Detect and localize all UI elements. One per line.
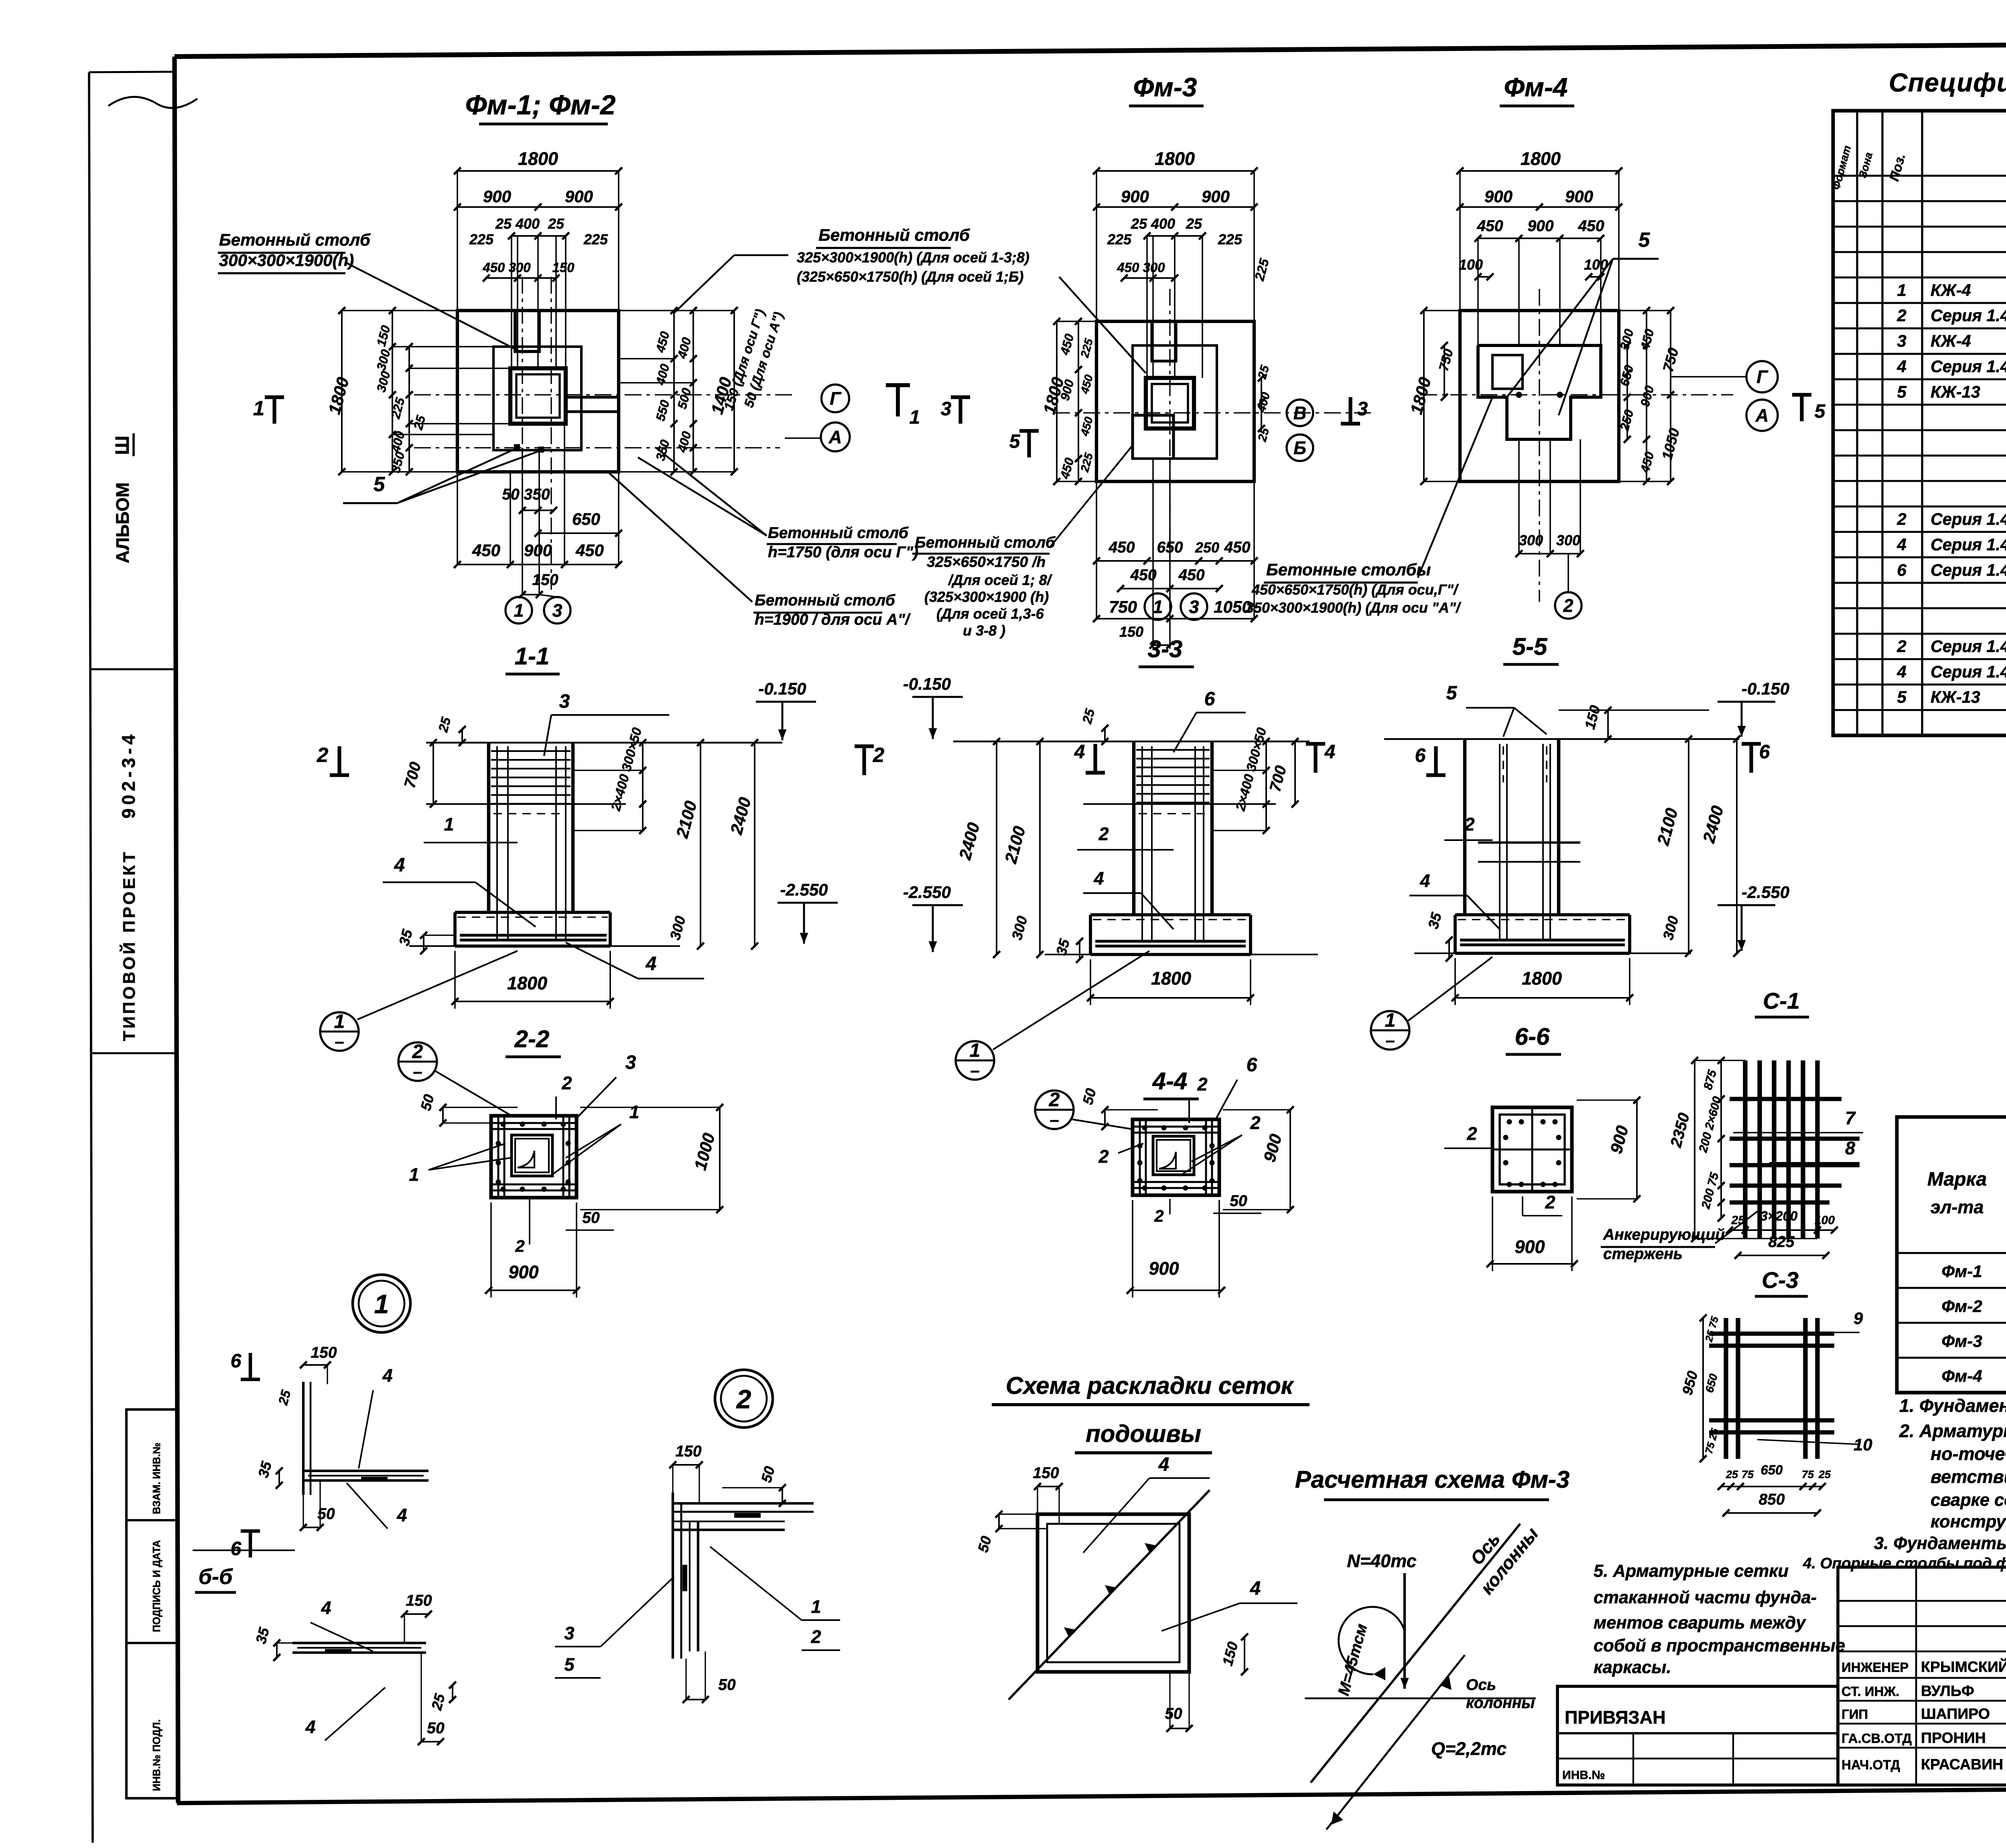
svg-text:4: 4	[646, 953, 657, 975]
svg-text:Бетонный столб: Бетонный столб	[755, 592, 895, 609]
svg-text:3. Фундаменты замаркированы: 3. Фундаменты замаркированы на листе КЖ-…	[1874, 1534, 2006, 1553]
svg-text:сварке соединений арматуры: сварке соединений арматуры и закладных д…	[1931, 1491, 2006, 1510]
svg-text:Бетонный столб: Бетонный столб	[818, 225, 970, 244]
svg-text:150: 150	[406, 1592, 432, 1609]
svg-text:5: 5	[1009, 431, 1021, 452]
svg-text:2: 2	[515, 1237, 524, 1255]
svg-text:900: 900	[1515, 1237, 1545, 1257]
svg-text:1800: 1800	[1151, 968, 1191, 989]
svg-text:4: 4	[394, 855, 405, 876]
svg-text:4: 4	[396, 1505, 407, 1525]
svg-text:3: 3	[559, 691, 570, 712]
svg-text:Схема раскладки сеток: Схема раскладки сеток	[1006, 1372, 1294, 1399]
svg-text:1800: 1800	[1155, 148, 1195, 169]
svg-text:450 300: 450 300	[1117, 260, 1165, 275]
svg-text:4: 4	[1250, 1578, 1261, 1599]
svg-text:5: 5	[1815, 401, 1826, 422]
svg-text:900: 900	[483, 187, 511, 206]
svg-text:Ш: Ш	[112, 436, 133, 455]
svg-text:ГИП: ГИП	[1842, 1707, 1868, 1722]
svg-text:Фм-4: Фм-4	[1504, 72, 1567, 102]
svg-text:650: 650	[572, 510, 600, 528]
svg-text:150: 150	[1119, 623, 1143, 640]
svg-text:2: 2	[1545, 1192, 1555, 1212]
svg-text:3: 3	[564, 1623, 574, 1643]
svg-text:НАЧ.ОТД: НАЧ.ОТД	[1842, 1757, 1900, 1772]
svg-text:2-2: 2-2	[514, 1026, 550, 1052]
svg-text:150: 150	[311, 1344, 337, 1361]
svg-text:1. Фундаменты выполнять: 1. Фундаменты выполнять из бетона М-200.	[1899, 1395, 2006, 1416]
svg-text:450: 450	[1108, 539, 1135, 556]
svg-text:450: 450	[1476, 217, 1503, 235]
svg-text:КЖ-4: КЖ-4	[1931, 281, 1971, 299]
svg-text:2: 2	[810, 1627, 821, 1647]
svg-text:2: 2	[412, 1041, 423, 1062]
svg-text:3-3: 3-3	[1148, 636, 1183, 662]
svg-text:собой в пространственные: собой в пространственные	[1594, 1636, 1845, 1655]
svg-text:ТИПОВОЙ ПРОЕКТ: ТИПОВОЙ ПРОЕКТ	[119, 850, 138, 1041]
svg-text:25 400: 25 400	[495, 215, 540, 232]
svg-text:6: 6	[1415, 745, 1426, 766]
svg-text:150: 150	[532, 571, 558, 589]
svg-text:2. Арматурные сетки изгот: 2. Арматурные сетки изготовлять при помо…	[1899, 1421, 2006, 1441]
svg-text:Спецификация элементов монолит: Спецификация элементов монолитной констр…	[1889, 68, 2006, 97]
svg-text:25: 25	[1731, 1214, 1745, 1227]
svg-text:стаканной части фунда-: стаканной части фунда-	[1594, 1588, 1817, 1607]
svg-text:1: 1	[444, 814, 454, 835]
svg-text:900: 900	[1527, 217, 1553, 235]
svg-text:КЖ-13: КЖ-13	[1931, 383, 1980, 401]
svg-text:900: 900	[508, 1262, 538, 1282]
svg-text:900: 900	[1565, 187, 1593, 206]
svg-text:Серия 1.412-1/77: Серия 1.412-1/77	[1931, 561, 2006, 579]
svg-text:1-1: 1-1	[515, 643, 550, 670]
svg-text:ИНЖЕНЕР: ИНЖЕНЕР	[1842, 1660, 1909, 1675]
svg-text:75: 75	[1742, 1468, 1754, 1480]
svg-text:С-1: С-1	[1763, 988, 1800, 1014]
svg-text:150: 150	[675, 1443, 701, 1460]
svg-text:450: 450	[1178, 567, 1204, 584]
svg-text:3×200: 3×200	[1760, 1208, 1798, 1223]
svg-text:825: 825	[1768, 1233, 1795, 1251]
svg-text:5. Арматурные сетки: 5. Арматурные сетки	[1594, 1562, 1789, 1581]
svg-text:КРЫМСКИЙ: КРЫМСКИЙ	[1921, 1658, 2006, 1675]
svg-text:4: 4	[1093, 868, 1104, 889]
svg-text:2: 2	[1896, 306, 1906, 325]
svg-text:Фм-1; Фм-2: Фм-1; Фм-2	[465, 89, 616, 120]
svg-text:подошвы: подошвы	[1086, 1420, 1201, 1447]
svg-text:Анкерирующий: Анкерирующий	[1603, 1226, 1725, 1243]
svg-text:900: 900	[1202, 187, 1230, 206]
svg-text:225: 225	[469, 231, 494, 248]
svg-text:ВЗАМ. ИНВ.№: ВЗАМ. ИНВ.№	[151, 1442, 162, 1514]
svg-text:-0.150: -0.150	[758, 679, 806, 698]
svg-text:1800: 1800	[1521, 148, 1561, 169]
svg-text:4: 4	[382, 1365, 392, 1386]
svg-text:902-3-4: 902-3-4	[118, 731, 139, 818]
svg-text:2: 2	[736, 1384, 751, 1414]
svg-text:1: 1	[1897, 280, 1906, 299]
svg-text:N=40тс: N=40тс	[1347, 1551, 1416, 1571]
svg-text:4-4: 4-4	[1152, 1068, 1188, 1095]
svg-text:2: 2	[561, 1073, 572, 1093]
svg-text:25: 25	[1186, 215, 1202, 232]
svg-text:ИНВ.№ ПОДЛ.: ИНВ.№ ПОДЛ.	[151, 1719, 162, 1791]
svg-text:100: 100	[1815, 1214, 1835, 1227]
svg-text:75: 75	[1802, 1468, 1814, 1480]
svg-text:450: 450	[472, 541, 500, 560]
svg-text:450 300: 450 300	[482, 260, 531, 275]
svg-text:h=1750 (для оси Г"): h=1750 (для оси Г")	[768, 544, 918, 561]
svg-text:конструкций.": конструкций."	[1931, 1512, 2006, 1531]
svg-text:Г: Г	[830, 388, 842, 409]
svg-text:(Для осей 1,3-6: (Для осей 1,3-6	[936, 605, 1044, 622]
svg-text:–: –	[1050, 1110, 1059, 1129]
svg-text:1: 1	[1385, 1010, 1396, 1031]
svg-text:–: –	[335, 1032, 344, 1051]
svg-text:7: 7	[1845, 1108, 1856, 1128]
svg-text:-0.150: -0.150	[903, 674, 951, 693]
svg-text:В: В	[1293, 403, 1307, 423]
svg-text:Бетонные столбы: Бетонные столбы	[1266, 560, 1431, 579]
svg-text:Фм-1: Фм-1	[1941, 1262, 1982, 1281]
svg-text:900: 900	[565, 187, 593, 206]
svg-text:Бетонный столб: Бетонный столб	[768, 524, 909, 542]
svg-text:3: 3	[1189, 597, 1199, 617]
svg-text:Серия 1.412-1/77, Вып.3: Серия 1.412-1/77, Вып.3	[1931, 307, 2006, 325]
svg-text:ВУЛЬФ: ВУЛЬФ	[1921, 1682, 1974, 1699]
svg-text:2: 2	[1049, 1089, 1060, 1111]
svg-text:2: 2	[1154, 1206, 1163, 1225]
svg-text:2: 2	[1098, 1146, 1109, 1167]
svg-text:900: 900	[1149, 1258, 1179, 1279]
svg-text:1800: 1800	[518, 148, 558, 169]
svg-text:2: 2	[1896, 637, 1906, 656]
svg-text:2: 2	[1098, 824, 1109, 844]
svg-text:Расчетная схема Фм-3: Расчетная схема Фм-3	[1295, 1466, 1570, 1493]
svg-text:С-3: С-3	[1762, 1267, 1799, 1293]
svg-text:но-точечной сварки. Сварк: но-точечной сварки. Сварку осуществлять …	[1931, 1444, 2006, 1464]
svg-text:–: –	[1385, 1031, 1395, 1050]
svg-text:1: 1	[910, 407, 920, 428]
svg-text:450×650×1750(h) (Для оси,Г"/: 450×650×1750(h) (Для оси,Г"/	[1251, 581, 1459, 598]
svg-text:225: 225	[1218, 231, 1243, 248]
svg-text:1: 1	[629, 1102, 639, 1122]
svg-text:6-6: 6-6	[1515, 1023, 1550, 1050]
svg-text:5: 5	[564, 1654, 575, 1675]
svg-text:2: 2	[1197, 1074, 1207, 1095]
svg-text:300×300×1900(h): 300×300×1900(h)	[219, 251, 354, 270]
svg-text:2: 2	[1464, 814, 1474, 835]
svg-text:900: 900	[524, 541, 552, 560]
svg-text:5: 5	[1897, 688, 1907, 707]
svg-text:Фм-4: Фм-4	[1941, 1367, 1982, 1385]
svg-text:б-б: б-б	[199, 1565, 233, 1589]
svg-text:50: 50	[427, 1720, 445, 1737]
svg-text:2: 2	[1466, 1123, 1477, 1144]
svg-text:(325×300×1900 (h): (325×300×1900 (h)	[924, 589, 1049, 605]
svg-text:4: 4	[1896, 662, 1906, 681]
svg-text:2: 2	[873, 743, 884, 766]
svg-text:Фм-2: Фм-2	[1941, 1297, 1982, 1316]
svg-text:Бетонный столб: Бетонный столб	[219, 230, 371, 249]
svg-text:-2.550: -2.550	[1742, 883, 1789, 902]
svg-text:3: 3	[1897, 331, 1906, 350]
svg-text:Б: Б	[1293, 438, 1306, 458]
svg-text:1: 1	[334, 1011, 345, 1032]
svg-text:650: 650	[1760, 1462, 1783, 1477]
svg-text:450: 450	[575, 541, 604, 560]
svg-text:1800: 1800	[1522, 968, 1562, 989]
svg-text:2: 2	[1896, 510, 1906, 528]
svg-text:9: 9	[1854, 1309, 1863, 1328]
svg-text:225: 225	[1107, 231, 1132, 248]
svg-text:Серия 1.412-1/77, Вып.3: Серия 1.412-1/77, Вып.3	[1931, 510, 2006, 528]
svg-text:1: 1	[811, 1596, 821, 1617]
svg-text:5: 5	[1897, 382, 1907, 401]
svg-text:225: 225	[583, 231, 608, 248]
svg-text:Серия 1.412-1/77, Вып.3: Серия 1.412-1/77, Вып.3	[1931, 637, 2006, 656]
svg-text:450: 450	[1224, 539, 1250, 556]
svg-text:Г: Г	[1756, 367, 1768, 387]
svg-text:25: 25	[1818, 1468, 1831, 1480]
svg-text:5: 5	[1639, 228, 1650, 251]
svg-text:2: 2	[1563, 595, 1573, 616]
svg-text:4: 4	[1896, 357, 1906, 376]
svg-text:каркасы.: каркасы.	[1594, 1658, 1671, 1677]
svg-text:5: 5	[374, 473, 385, 496]
svg-text:6: 6	[231, 1350, 242, 1372]
svg-text:6: 6	[1204, 688, 1215, 710]
svg-text:ПОДПИСЬ И ДАТА: ПОДПИСЬ И ДАТА	[151, 1540, 162, 1632]
svg-text:–: –	[970, 1061, 979, 1080]
svg-text:50: 50	[582, 1209, 600, 1227]
svg-text:Бетонный столб: Бетонный столб	[915, 534, 1056, 551]
svg-text:КЖ-13: КЖ-13	[1931, 688, 1980, 707]
svg-text:8: 8	[1845, 1138, 1855, 1158]
svg-text:450: 450	[1578, 217, 1604, 235]
svg-text:-2.550: -2.550	[903, 883, 951, 902]
svg-text:А: А	[828, 427, 842, 447]
svg-text:1: 1	[1153, 597, 1163, 617]
svg-text:50: 50	[1165, 1705, 1182, 1722]
svg-text:3: 3	[625, 1052, 636, 1073]
svg-text:ПРОНИН: ПРОНИН	[1921, 1729, 1986, 1746]
svg-text:50: 50	[718, 1676, 736, 1694]
svg-text:ГА.СВ.ОТД: ГА.СВ.ОТД	[1842, 1731, 1912, 1746]
svg-text:1: 1	[409, 1164, 419, 1185]
svg-text:350×300×1900(h) (Для оси "А"/: 350×300×1900(h) (Для оси "А"/	[1246, 599, 1462, 616]
svg-text:6: 6	[1247, 1054, 1257, 1076]
svg-text:ментов сварить между: ментов сварить между	[1594, 1613, 1806, 1633]
svg-text:h=1900 / для оси А"/: h=1900 / для оси А"/	[755, 611, 911, 628]
svg-text:–: –	[413, 1062, 422, 1081]
svg-text:эл-та: эл-та	[1931, 1197, 1984, 1217]
svg-text:150: 150	[1033, 1464, 1059, 1482]
svg-text:-0.150: -0.150	[1742, 679, 1789, 698]
svg-text:25: 25	[1726, 1468, 1738, 1480]
svg-text:АЛЬБОМ: АЛЬБОМ	[112, 482, 133, 563]
svg-text:850: 850	[1758, 1491, 1785, 1508]
svg-text:6: 6	[231, 1538, 242, 1560]
svg-text:/Для осей 1; 8/: /Для осей 1; 8/	[948, 572, 1053, 588]
svg-text:2: 2	[1250, 1113, 1260, 1133]
svg-text:900: 900	[1121, 187, 1149, 206]
svg-text:Фм-3: Фм-3	[1941, 1332, 1982, 1350]
svg-text:1: 1	[514, 600, 524, 621]
svg-text:ПРИВЯЗАН: ПРИВЯЗАН	[1565, 1707, 1666, 1728]
svg-text:и 3-8 ): и 3-8 )	[963, 622, 1005, 639]
svg-text:Серия 1.410-2. Вып.1: Серия 1.410-2. Вып.1	[1931, 357, 2006, 376]
svg-text:ветствии с СН393-69 и ГОСТ: ветствии с СН393-69 и ГОСТ 10922-75 „Ука…	[1931, 1466, 2006, 1487]
svg-text:4: 4	[1419, 871, 1430, 891]
svg-text:250: 250	[1195, 539, 1219, 556]
svg-text:А: А	[1755, 405, 1769, 426]
svg-text:Q=2,2тс: Q=2,2тс	[1431, 1738, 1507, 1759]
svg-text:-2.550: -2.550	[780, 880, 828, 899]
svg-text:25: 25	[548, 215, 564, 232]
svg-text:стержень: стержень	[1603, 1245, 1683, 1263]
svg-text:3: 3	[941, 398, 952, 420]
svg-text:2: 2	[317, 743, 328, 766]
svg-text:4. Опорные столбы под фунда: 4. Опорные столбы под фундаментные балки…	[1803, 1555, 2006, 1572]
svg-text:Фм-3: Фм-3	[1133, 72, 1197, 102]
svg-text:Марка: Марка	[1927, 1169, 1987, 1190]
svg-text:325×650×1750 /h: 325×650×1750 /h	[927, 553, 1046, 570]
svg-text:5: 5	[1446, 682, 1458, 704]
svg-text:3: 3	[1357, 398, 1368, 420]
svg-text:1: 1	[374, 1289, 389, 1319]
svg-text:4: 4	[321, 1598, 331, 1618]
svg-text:КРАСАВИН: КРАСАВИН	[1921, 1756, 2003, 1773]
svg-text:(325×650×1750(h) (Для осей 1;Б: (325×650×1750(h) (Для осей 1;Б)	[797, 268, 1023, 285]
svg-text:25 400: 25 400	[1131, 215, 1175, 232]
svg-text:4: 4	[1324, 741, 1336, 763]
svg-text:50 350: 50 350	[502, 486, 550, 503]
svg-text:Ось: Ось	[1466, 1676, 1496, 1694]
svg-text:1800: 1800	[507, 973, 547, 993]
svg-text:колонны: колонны	[1466, 1694, 1535, 1712]
svg-text:50: 50	[1230, 1192, 1247, 1210]
svg-text:КЖ-4: КЖ-4	[1931, 332, 1971, 350]
svg-text:СТ. ИНЖ.: СТ. ИНЖ.	[1842, 1684, 1899, 1699]
svg-text:750: 750	[1109, 597, 1137, 616]
svg-text:1: 1	[970, 1040, 981, 1061]
svg-text:5-5: 5-5	[1513, 633, 1548, 660]
svg-text:ШАПИРО: ШАПИРО	[1921, 1705, 1990, 1722]
svg-text:4: 4	[1158, 1454, 1169, 1475]
svg-text:300: 300	[1556, 532, 1580, 548]
svg-text:3: 3	[552, 600, 562, 621]
svg-text:4: 4	[1896, 535, 1906, 554]
svg-text:ИНВ.№: ИНВ.№	[1562, 1769, 1605, 1782]
svg-text:6: 6	[1897, 560, 1907, 579]
svg-text:325×300×1900(h) (Для осей 1-3;: 325×300×1900(h) (Для осей 1-3;8)	[797, 249, 1029, 266]
svg-text:Серия 1.410-2 Вып.1: Серия 1.410-2 Вып.1	[1931, 662, 2006, 681]
svg-text:Серия 1.410-2 Вып.1: Серия 1.410-2 Вып.1	[1931, 535, 2006, 554]
svg-text:4: 4	[1074, 741, 1085, 763]
svg-text:1: 1	[253, 397, 264, 420]
svg-text:300: 300	[1519, 532, 1543, 548]
svg-text:900: 900	[1484, 187, 1513, 206]
svg-text:100: 100	[1459, 256, 1483, 273]
svg-text:4: 4	[305, 1717, 315, 1737]
